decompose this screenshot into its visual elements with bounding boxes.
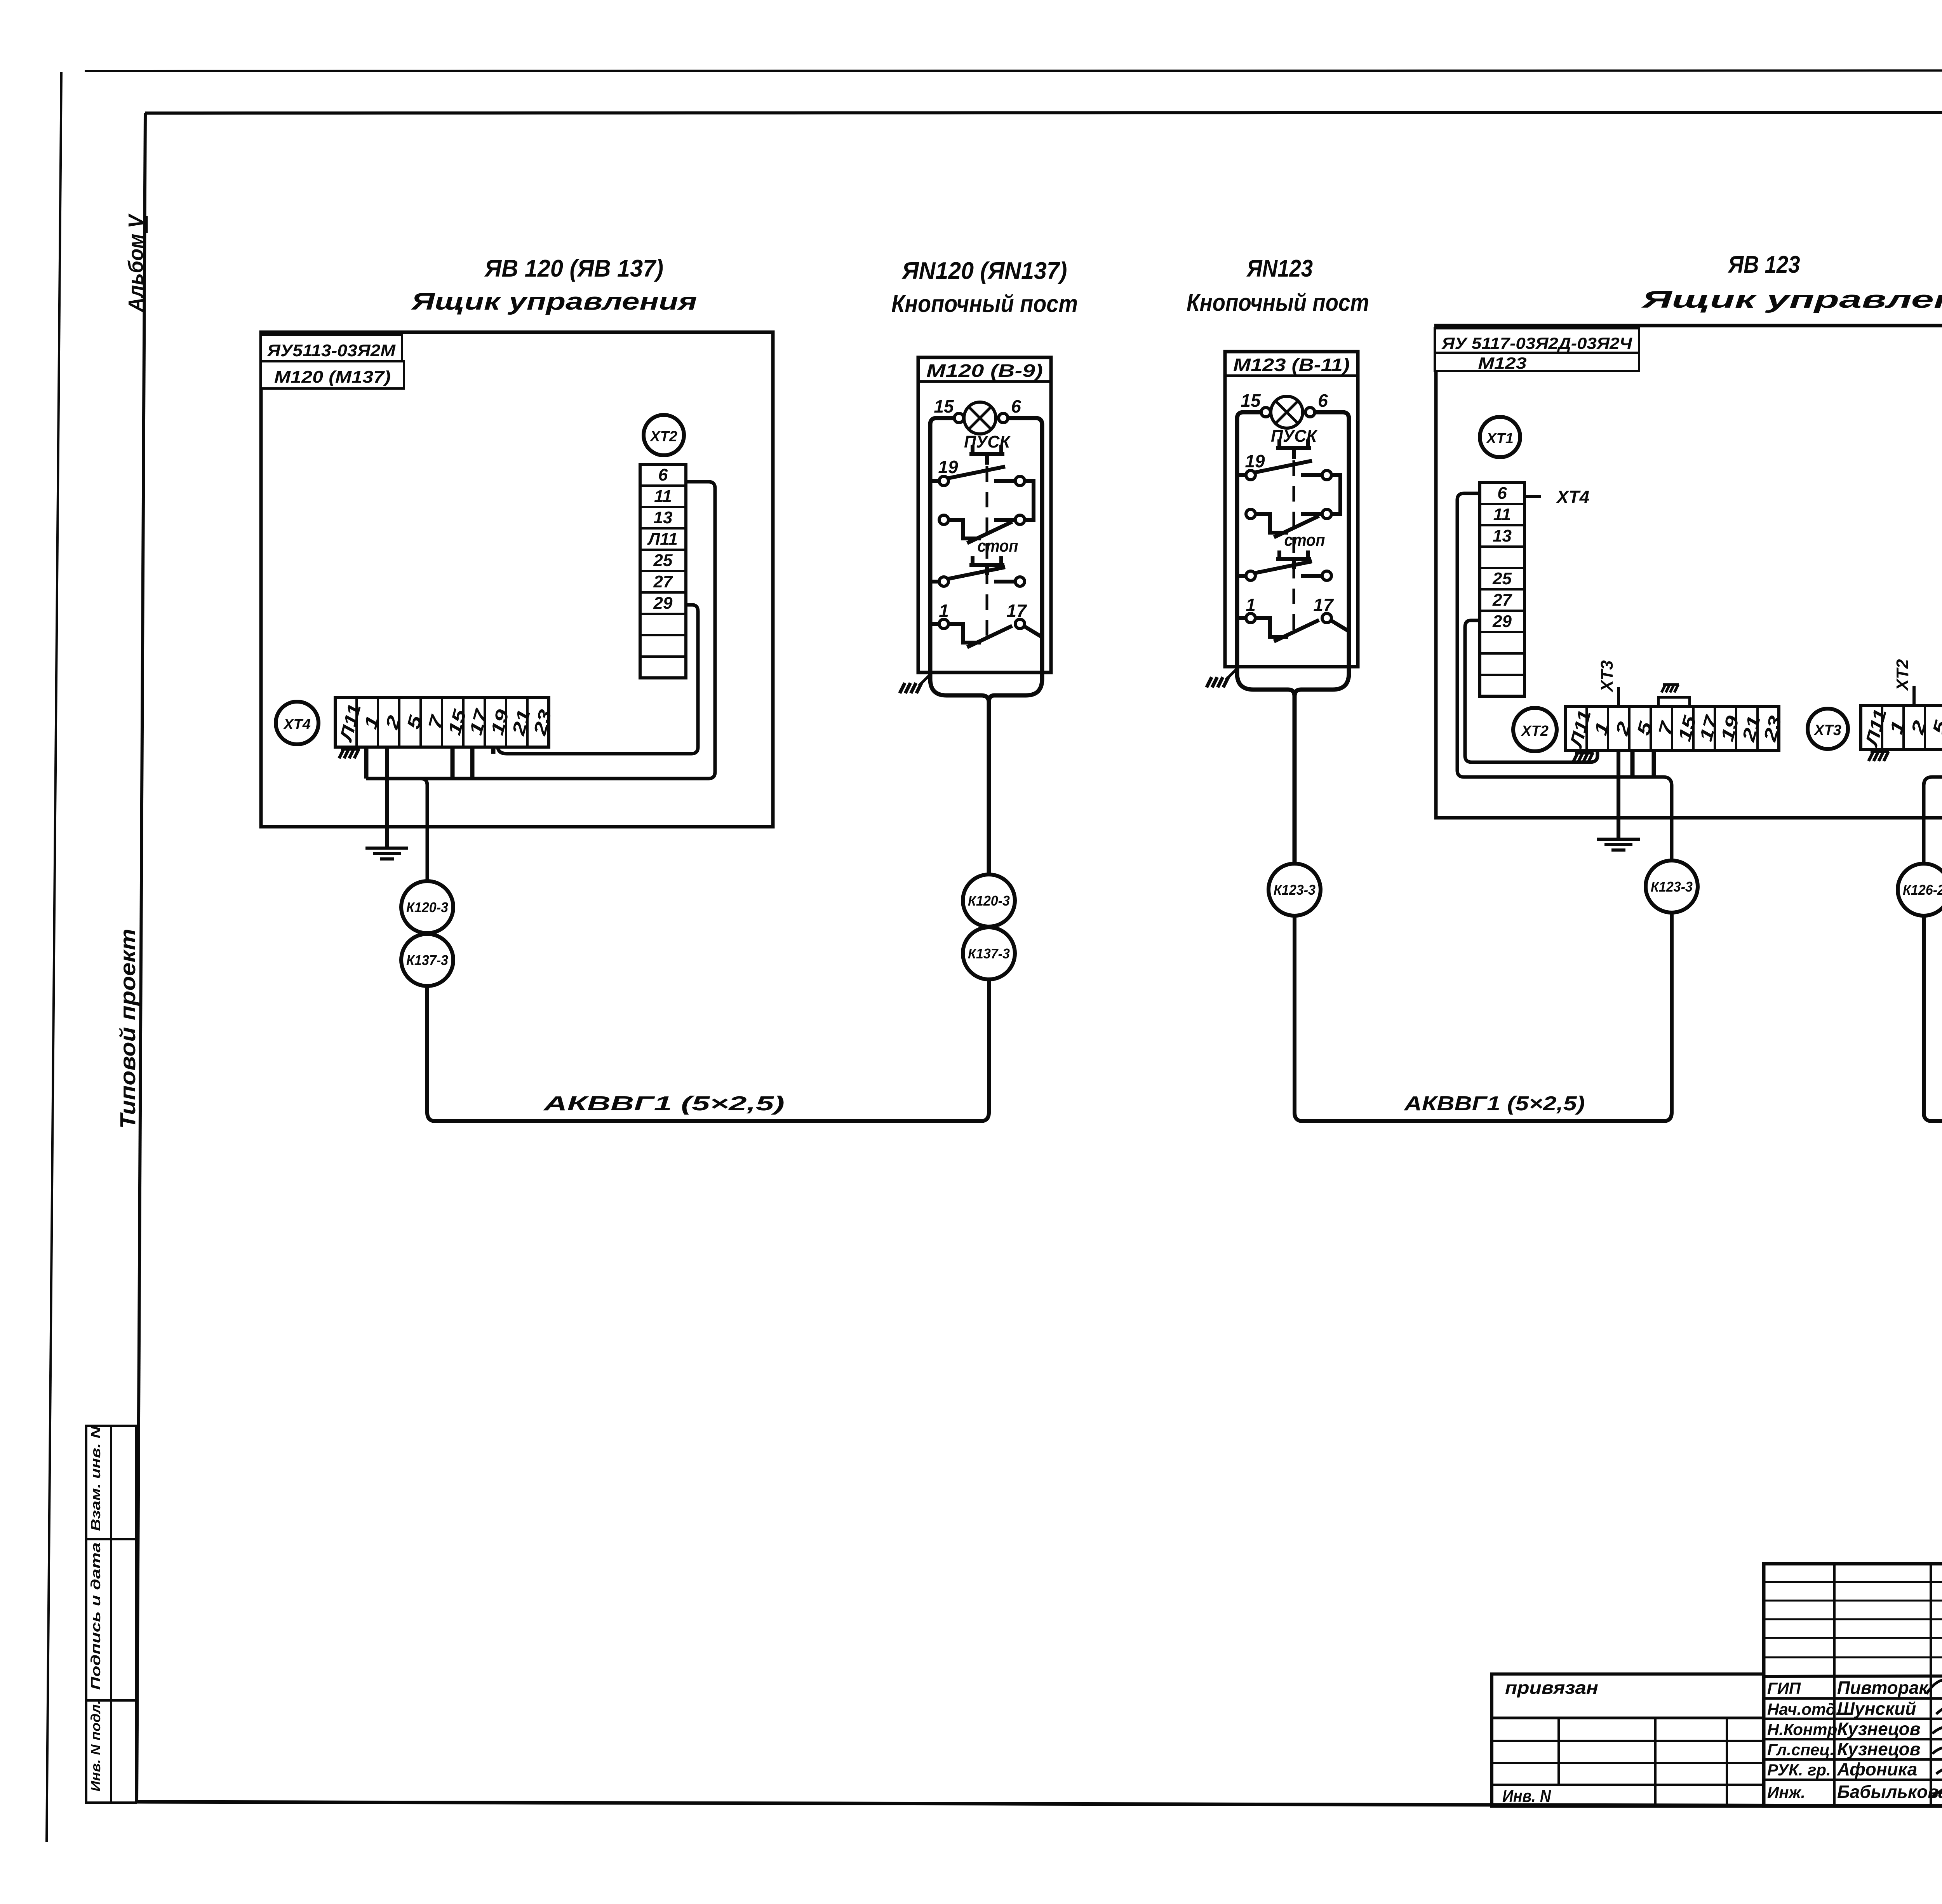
svg-text:Инв. N подл.: Инв. N подл. (89, 1700, 103, 1792)
ground lead from XT2-2 (1617, 751, 1620, 838)
wire right rail ЯN120 (989, 418, 1042, 702)
svg-text:К137-3: К137-3 (968, 946, 1010, 962)
svg-text:М123: М123 (1478, 354, 1527, 372)
connector symbol XT1 (1480, 417, 1520, 457)
terminal (1015, 515, 1025, 524)
ground symbol box ЯВ120 (365, 848, 408, 859)
lamp HL ЯN123 (1271, 396, 1303, 428)
terminal (1246, 470, 1255, 480)
lamp HL ЯN120 (964, 402, 996, 434)
push button ПУСК actuator (969, 445, 1004, 465)
svg-text:29: 29 (1492, 612, 1512, 631)
cable marker К137-3 (post side) (963, 927, 1015, 979)
wire stub XT2-5 (1631, 751, 1635, 777)
svg-text:Подпись и дата: Подпись и дата (89, 1542, 103, 1690)
svg-text:6: 6 (1497, 484, 1507, 503)
svg-text:15: 15 (1241, 390, 1261, 411)
wire stub XT4-17 (470, 747, 475, 779)
wire post ЯN120 drop (987, 702, 991, 874)
earth hatch on jumper (1662, 685, 1679, 692)
wire XT2-6 to bus (366, 482, 715, 779)
cable АКВВГ1 run 3 (1924, 916, 1942, 1121)
svg-text:Ящик управления: Ящик управления (411, 288, 697, 315)
cable marker К120-3 (post side) (963, 874, 1015, 927)
svg-text:13: 13 (654, 508, 673, 527)
wire XT2-29 to XT4-19 (498, 605, 698, 754)
terminal (1015, 619, 1025, 629)
svg-text:ЯN120 (ЯN137): ЯN120 (ЯN137) (901, 258, 1067, 284)
lamp terminal 15 (954, 413, 964, 423)
svg-text:29: 29 (653, 594, 673, 613)
wire stub XT4-15 (451, 747, 455, 779)
svg-text:Н.Контр: Н.Контр (1767, 1720, 1837, 1739)
terminal (1015, 577, 1025, 586)
stamp box Подпись и дата (86, 1539, 136, 1700)
svg-text:Ящик управления: Ящик управления (1641, 286, 1942, 313)
svg-text:М120 (М137): М120 (М137) (274, 368, 391, 387)
drawing frame left (137, 113, 145, 1802)
svg-text:РУК. гр.: РУК. гр. (1767, 1761, 1831, 1779)
stub to ХТ2 (1912, 686, 1916, 706)
connector symbol XT2 (644, 415, 684, 455)
svg-text:Гл.спец.: Гл.спец. (1767, 1740, 1834, 1759)
connector symbol XT3 (1808, 709, 1848, 749)
svg-text:Инж.: Инж. (1767, 1783, 1805, 1801)
contact NC ПУСК row (1255, 514, 1323, 537)
pushbutton post ЯN123 (1207, 352, 1358, 696)
ground lead from XT4-2 (385, 747, 389, 847)
underline of V (146, 216, 148, 233)
ЯN123 label divider (1225, 375, 1358, 377)
lamp terminal 6 (999, 413, 1008, 423)
actuator dashed stem (986, 466, 988, 643)
svg-text:25: 25 (1492, 569, 1512, 588)
connector symbol XT4 (276, 702, 318, 744)
wire post ЯN123 drop (1293, 696, 1297, 864)
jumper bracket XT2 15-17 (1658, 697, 1690, 707)
terminal (1246, 571, 1255, 580)
tie line to ХТ4 (1524, 495, 1541, 498)
earth lead (1226, 667, 1239, 680)
svg-text:ХТ4: ХТ4 (1556, 487, 1589, 507)
svg-text:19: 19 (1245, 451, 1265, 471)
wire stub XT4-19 (491, 747, 496, 754)
name label box М120 (М137) (261, 361, 404, 388)
svg-text:Типовой проект: Типовой проект (115, 929, 140, 1129)
wire right rail ЯN123 (1295, 412, 1349, 696)
terminal (1322, 613, 1331, 623)
svg-text:25: 25 (653, 551, 673, 570)
terminal (939, 577, 948, 586)
svg-text:К123-3: К123-3 (1274, 882, 1316, 898)
svg-text:ЯУ 5117-03Я2Д-03Я2Ч: ЯУ 5117-03Я2Д-03Я2Ч (1441, 334, 1632, 352)
wire left rail ЯN120 (930, 418, 989, 702)
wire drop to cable K120-3 (421, 779, 427, 881)
earth hatch ЯN123 (1207, 677, 1229, 687)
wire stub XT4-1 (364, 747, 369, 779)
svg-text:ХТ2: ХТ2 (1521, 723, 1549, 739)
contact bottom row (1237, 618, 1349, 641)
terminal strip XT4 (horizontal) (335, 698, 555, 747)
svg-text:11: 11 (1493, 505, 1511, 524)
ЯN120 label divider (918, 380, 1051, 383)
title block (1764, 1564, 1942, 1806)
terminal (1322, 571, 1331, 580)
earth hatch at XT4-Л11 (339, 749, 360, 758)
terminal (939, 515, 948, 524)
cable АКВВГ1 run 2 (1295, 913, 1672, 1121)
cable marker К123-3 (post side) (1269, 864, 1321, 916)
svg-text:ХТ1: ХТ1 (1486, 430, 1514, 447)
contact NO ПУСК row (930, 467, 1034, 520)
wire XT1-6 to drop (1457, 493, 1672, 861)
control box ЯВ120 enclosure (261, 332, 773, 827)
svg-text:Альбом V: Альбом V (124, 213, 148, 313)
svg-text:Л11: Л11 (647, 530, 678, 549)
contact bottom row (930, 624, 1042, 647)
sheet outer border left (47, 72, 61, 1842)
drawing frame top (145, 112, 1942, 113)
contact NC СТОП row (930, 567, 1016, 582)
signatures (1926, 1680, 1942, 1806)
type label box ЯУ 5117-03Я2Д-03Я2Ч (1435, 328, 1639, 353)
svg-text:Нач.отд.: Нач.отд. (1767, 1700, 1840, 1718)
svg-text:ХТ4: ХТ4 (283, 716, 311, 733)
svg-text:ЯN123: ЯN123 (1246, 255, 1313, 282)
terminal (1246, 613, 1255, 623)
svg-text:27: 27 (1492, 591, 1512, 610)
svg-text:27: 27 (653, 572, 673, 591)
connector symbol XT2 (box ЯВ123) (1513, 708, 1557, 751)
svg-text:ХТ2: ХТ2 (649, 429, 677, 445)
svg-text:19: 19 (938, 457, 958, 477)
svg-text:13: 13 (1493, 526, 1512, 545)
svg-text:стоп: стоп (978, 537, 1018, 556)
svg-text:К123-3: К123-3 (1651, 879, 1693, 895)
wire stub XT2-7 (1652, 751, 1656, 777)
svg-text:К120-3: К120-3 (406, 899, 448, 915)
wire XT1r-6 to drop (1924, 487, 1942, 864)
svg-text:Бабылькова: Бабылькова (1837, 1782, 1942, 1802)
svg-text:К126-2: К126-2 (1903, 882, 1942, 898)
svg-text:М123 (В-11): М123 (В-11) (1233, 355, 1350, 375)
wire left rail ЯN123 (1237, 412, 1295, 696)
terminal strip XT2 (horizontal) (1565, 707, 1785, 751)
svg-text:6: 6 (1318, 390, 1328, 411)
svg-text:К120-3: К120-3 (968, 893, 1010, 909)
svg-text:привязан: привязан (1505, 1678, 1598, 1698)
svg-text:ЯВ 120 (ЯВ 137): ЯВ 120 (ЯВ 137) (484, 255, 663, 282)
terminal strip XT3 (horizontal) (1861, 706, 1942, 749)
terminal (939, 619, 948, 629)
contact NC СТОП row (1237, 561, 1323, 576)
contact NO ПУСК row (1237, 461, 1340, 514)
push button СТОП actuator (969, 556, 1004, 575)
control box ЯВ123 enclosure (1436, 326, 1942, 818)
push button СТОП actuator (1276, 550, 1311, 569)
svg-text:Кнопочный пост: Кнопочный пост (1187, 289, 1369, 316)
svg-text:стоп: стоп (1284, 531, 1325, 550)
stamp box Инв. N подл. (86, 1700, 136, 1803)
terminal strip XT2 (vertical) (640, 464, 686, 678)
svg-text:ГИП: ГИП (1767, 1679, 1801, 1697)
push button ПУСК actuator (1276, 439, 1311, 459)
svg-text:Взам. инв. N: Взам. инв. N (89, 1425, 103, 1531)
attachment table (1492, 1674, 1764, 1806)
stamp box Взам. инв. N (86, 1426, 136, 1539)
wire XT1-29 to XT2-1 (1465, 620, 1597, 762)
svg-text:6: 6 (1011, 396, 1021, 416)
svg-text:Кузнецов: Кузнецов (1837, 1739, 1921, 1759)
ЯN120 enclosure (918, 357, 1051, 672)
stub to ХТ3 (1617, 687, 1620, 707)
terminal (1322, 470, 1331, 480)
terminal (939, 476, 948, 486)
earth hatch ЯN120 (900, 683, 922, 693)
cable marker К123-3 (box side) (1646, 861, 1698, 913)
terminal (1015, 476, 1025, 486)
sheet outer border top (85, 70, 1942, 71)
svg-text:ЯУ5113-03Я2М: ЯУ5113-03Я2М (267, 341, 396, 360)
terminal (1246, 509, 1255, 519)
svg-text:17: 17 (1313, 595, 1334, 615)
cable marker К126-2 (box side) (1898, 864, 1942, 916)
actuator dashed stem (1293, 460, 1295, 637)
cable АКВВГ1 run 1 (427, 979, 989, 1121)
drawing frame bottom (137, 1802, 1942, 1807)
svg-text:Кузнецов: Кузнецов (1837, 1719, 1921, 1739)
cable marker К137-3 (box side) (401, 934, 453, 986)
svg-text:АКВВГ1 (5×2,5): АКВВГ1 (5×2,5) (1403, 1092, 1585, 1115)
cable marker К120-3 (box side) (401, 881, 453, 933)
svg-text:Афоника: Афоника (1837, 1759, 1917, 1779)
svg-text:Шунский: Шунский (1837, 1698, 1916, 1719)
svg-text:11: 11 (654, 487, 672, 506)
earth lead (919, 672, 932, 686)
svg-text:17: 17 (1006, 601, 1027, 621)
svg-text:Инв. N: Инв. N (1502, 1787, 1551, 1806)
lamp terminal 15 (1261, 408, 1270, 417)
terminal strip XT1 left (vertical) (1480, 483, 1524, 696)
svg-text:К137-3: К137-3 (406, 952, 448, 968)
terminal (1322, 509, 1331, 519)
name label box М123 (1435, 353, 1639, 371)
contact NC ПУСК row (948, 520, 1016, 543)
svg-text:ЯВ 123: ЯВ 123 (1728, 251, 1800, 278)
svg-text:15: 15 (934, 396, 954, 416)
earth hatch at XT3-Л11 (1869, 752, 1889, 761)
svg-text:Пивторак: Пивторак (1837, 1678, 1929, 1698)
svg-text:ХТ3: ХТ3 (1597, 660, 1617, 693)
svg-text:М120 (В-9): М120 (В-9) (926, 361, 1043, 381)
ЯN123 enclosure (1225, 352, 1358, 667)
svg-text:Кнопочный пост: Кнопочный пост (891, 291, 1078, 317)
lamp terminal 6 (1305, 408, 1315, 417)
svg-text:6: 6 (658, 465, 668, 484)
ground symbol box ЯВ123 (1597, 839, 1640, 850)
type label box ЯУ5113-03Я2М (261, 335, 402, 361)
earth hatch at XT2-Л11 (1573, 753, 1594, 762)
svg-text:АКВВГ1 (5×2,5): АКВВГ1 (5×2,5) (543, 1092, 785, 1115)
svg-text:ХТ2: ХТ2 (1893, 659, 1912, 692)
svg-text:ХТ3: ХТ3 (1813, 722, 1841, 739)
pushbutton post ЯN120 (900, 357, 1051, 702)
